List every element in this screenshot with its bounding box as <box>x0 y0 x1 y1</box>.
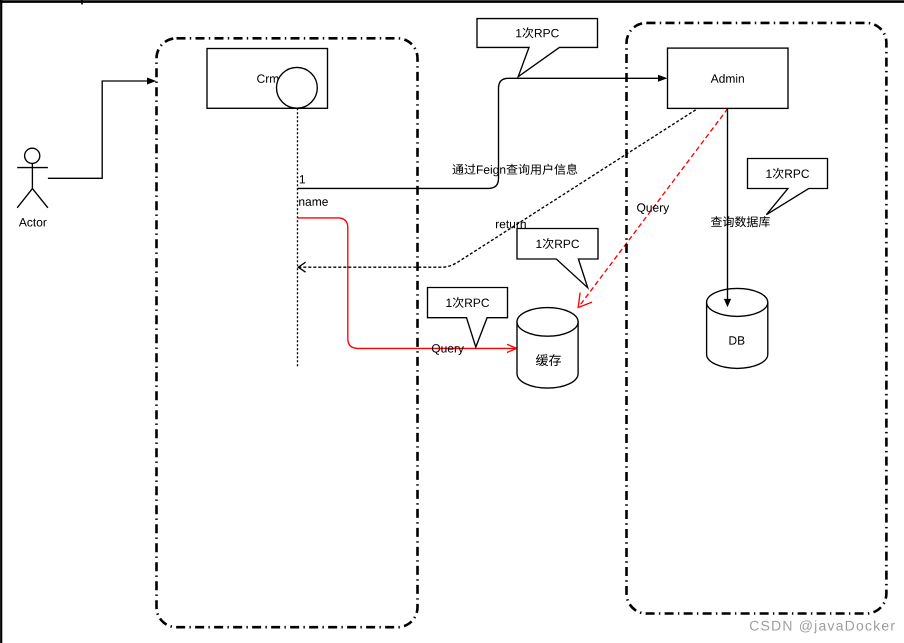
wire actor to left container <box>48 81 148 178</box>
actor stick figure <box>17 148 48 208</box>
red open arrowhead <box>578 293 592 308</box>
outer border top edge <box>0 0 904 3</box>
label 查询数据库 <box>711 216 770 227</box>
callout right 1次RPC <box>748 159 828 215</box>
left container (dash-dot rounded rect) <box>157 38 418 627</box>
arrowhead into left container <box>147 78 156 85</box>
top tick mark <box>81 0 83 5</box>
label Admin <box>711 74 744 83</box>
red open arrowhead at cache <box>507 344 517 352</box>
arrowhead into DB <box>724 299 731 307</box>
open arrowhead at lifeline <box>298 262 305 272</box>
right container (dash-dot rounded rect) <box>627 23 887 614</box>
label return <box>496 220 526 228</box>
label 缓存 <box>536 354 561 366</box>
return dashed wire Admin to lifeline <box>298 108 698 267</box>
label Query near red dashed wire <box>637 203 669 214</box>
lifeline (dashed vertical) <box>297 108 299 368</box>
label name <box>299 199 328 206</box>
label Query on red wire <box>432 344 464 355</box>
wire Admin to DB <box>727 108 729 299</box>
label Crm <box>257 74 278 83</box>
outer border left edge <box>0 0 2 643</box>
label 1 <box>300 175 305 183</box>
callout top 1次RPC <box>477 19 598 77</box>
Crm box <box>207 49 328 109</box>
label DB <box>729 336 744 344</box>
Admin box <box>668 48 789 108</box>
circle port on Crm <box>277 67 318 108</box>
DB cylinder <box>707 288 768 368</box>
red dashed wire Admin to cache <box>578 108 728 307</box>
request wire lifeline to Admin <box>298 78 659 188</box>
callout left 1次RPC <box>428 288 508 348</box>
label 通过Feign查询用户信息 <box>453 164 578 177</box>
red wire lifeline to cache cylinder <box>298 218 516 349</box>
callout middle 1次RPC <box>517 229 598 288</box>
label Actor <box>19 218 47 226</box>
watermark CSDN @javaDocker <box>750 620 895 633</box>
arrowhead into Admin <box>658 75 667 82</box>
cache cylinder <box>517 308 578 388</box>
